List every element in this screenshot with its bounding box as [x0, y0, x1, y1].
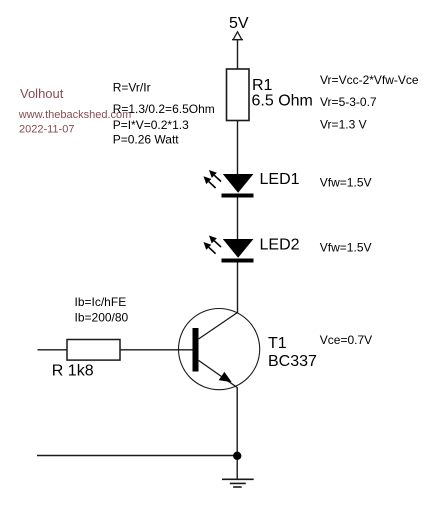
svg-text:Volhout: Volhout: [20, 86, 64, 101]
svg-text:R=Vr/Ir: R=Vr/Ir: [113, 81, 151, 95]
T1 base bar: [193, 328, 199, 372]
svg-text:Vr=Vcc-2*Vfw-Vce: Vr=Vcc-2*Vfw-Vce: [320, 73, 419, 87]
svg-text:Vr=5-3-0.7: Vr=5-3-0.7: [320, 95, 377, 109]
power symbol 5V arrow: [232, 32, 243, 40]
svg-text:5V: 5V: [229, 15, 249, 32]
svg-text:2022-11-07: 2022-11-07: [19, 124, 74, 136]
LED2 light arrow 2: [204, 242, 216, 254]
svg-text:Ib=Ic/hFE: Ib=Ic/hFE: [75, 295, 127, 309]
ground symbol: [222, 479, 254, 487]
transistor Q1 T1 BC337: [179, 309, 260, 390]
LED LED2: [204, 236, 254, 263]
LED1 light arrow 1: [209, 170, 221, 182]
wire base resistor to T1 base: [120, 349, 193, 351]
wire emitter to ground junction: [236, 387, 238, 479]
svg-text:Vr=1.3 V: Vr=1.3 V: [320, 118, 367, 132]
resistor R1: [227, 69, 250, 121]
svg-text:6.5 Ohm: 6.5 Ohm: [252, 93, 313, 110]
svg-text:R1: R1: [252, 77, 273, 94]
svg-text:Vfw=1.5V: Vfw=1.5V: [320, 241, 372, 255]
svg-text:R=1.3/0.2=6.5Ohm: R=1.3/0.2=6.5Ohm: [113, 102, 215, 116]
wire LED1 to LED2: [237, 198, 239, 240]
T1 collector line: [199, 313, 238, 340]
svg-text:LED2: LED2: [260, 237, 300, 254]
svg-text:P=0.26 Watt: P=0.26 Watt: [113, 133, 180, 147]
wire base resistor left lead: [38, 349, 68, 351]
svg-text:Vfw=1.5V: Vfw=1.5V: [320, 175, 372, 189]
wire bottom horizontal: [37, 455, 237, 457]
svg-text:R 1k8: R 1k8: [52, 363, 94, 380]
LED2 light arrow 1: [209, 236, 221, 248]
svg-text:T1: T1: [268, 335, 287, 352]
svg-text:LED1: LED1: [260, 171, 300, 188]
LED1 light arrow 2: [204, 176, 216, 188]
junction dot: [233, 452, 241, 460]
LED LED1: [204, 170, 254, 198]
T1 emitter arrowhead: [219, 372, 232, 382]
svg-text:Ib=200/80: Ib=200/80: [75, 311, 129, 325]
svg-text:Vce=0.7V: Vce=0.7V: [320, 333, 372, 347]
svg-text:BC337: BC337: [268, 353, 317, 370]
T1 emitter line: [199, 360, 237, 387]
resistor R 1k8: [67, 340, 120, 361]
svg-text:P=I*V=0.2*1.3: P=I*V=0.2*1.3: [113, 118, 189, 132]
wire LED2 to collector: [237, 263, 239, 314]
wire 5V to R1: [237, 40, 239, 69]
wire R1 to LED1: [237, 121, 239, 175]
T1 body circle: [179, 309, 260, 390]
